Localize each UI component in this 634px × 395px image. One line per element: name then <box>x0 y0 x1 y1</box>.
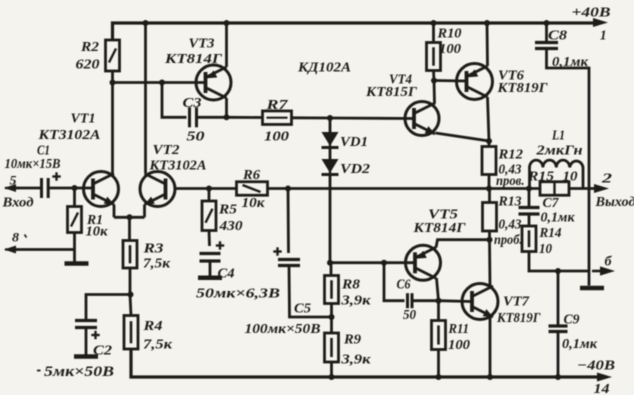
svg-text:VT1: VT1 <box>71 112 96 127</box>
capacitor C5 <box>245 247 321 337</box>
transistor VT6 <box>457 64 549 100</box>
wire VT5 emitter up <box>436 240 490 248</box>
node R9 at rail <box>329 374 335 380</box>
wire bias node to VT5 base <box>330 261 415 264</box>
wire R3 to R4 node <box>130 268 131 316</box>
wire common emitter <box>114 216 145 219</box>
resistor R12 <box>482 147 525 190</box>
resistor R6 <box>237 168 268 211</box>
resistor R15 <box>527 170 578 196</box>
resistor R8 <box>325 276 372 309</box>
resistor R10 <box>427 27 462 71</box>
ground under R1 <box>65 261 89 266</box>
wire VT2 emitter down <box>143 205 146 218</box>
resistor R5 <box>202 201 243 234</box>
svg-text:2мкГн: 2мкГн <box>535 144 582 159</box>
node C5 tap <box>285 186 291 192</box>
svg-text:пров.: пров. <box>496 174 525 189</box>
node R8/R9 junction <box>329 314 335 320</box>
svg-text:R11: R11 <box>448 322 469 337</box>
wire pin 8 to R1 bottom <box>14 248 75 251</box>
capacitor C2 <box>37 321 114 381</box>
wire -40V bottom rail <box>131 349 598 377</box>
wire R13 bottom <box>488 231 491 240</box>
svg-text:14: 14 <box>594 382 610 395</box>
wire R15 to output pin <box>569 187 596 190</box>
svg-text:+40В: +40В <box>572 6 611 21</box>
wire VT1 collector <box>111 83 114 175</box>
node R11 at rail <box>436 374 442 380</box>
pin 5 input arrow <box>1 173 33 211</box>
svg-text:VT2: VT2 <box>153 143 180 158</box>
wire VT2 collector <box>144 23 147 173</box>
-40V arrowhead pin 14 <box>577 359 615 395</box>
svg-text:2: 2 <box>601 172 612 187</box>
svg-text:б: б <box>605 255 613 270</box>
svg-text:R9: R9 <box>343 333 361 348</box>
diode VD2 <box>322 159 371 177</box>
svg-text:0,43: 0,43 <box>499 218 522 233</box>
node VD1 top junction <box>327 115 333 121</box>
svg-text:−40В: −40В <box>577 359 615 374</box>
svg-text:R8: R8 <box>341 278 360 293</box>
node VT6 collector at rail <box>484 20 490 26</box>
svg-text:10: 10 <box>563 170 578 185</box>
svg-text:50: 50 <box>187 130 205 145</box>
wire bias line to VT3 base <box>113 81 207 84</box>
node R10 bottom junction <box>431 78 437 84</box>
svg-text:50: 50 <box>403 308 416 323</box>
svg-text:VD1: VD1 <box>340 135 368 150</box>
wire R9 to rail <box>330 362 333 377</box>
svg-text:L1: L1 <box>551 129 565 144</box>
wire C9 stub <box>557 271 560 325</box>
svg-text:10к: 10к <box>242 196 266 211</box>
wire C3 to VT3 collector <box>197 116 227 119</box>
wire L1 right leg <box>582 167 585 189</box>
node common emitter junction <box>127 214 133 220</box>
wire R12 to output node <box>488 175 491 189</box>
capacitor C7 <box>519 196 576 226</box>
resistor R11 <box>432 321 471 354</box>
node C8 at rail <box>544 20 550 26</box>
resistor R14 <box>522 226 562 257</box>
svg-text:R4: R4 <box>142 319 162 334</box>
transistor VT5 <box>406 208 467 281</box>
wire VD1 to VD2 <box>329 148 332 160</box>
wire VD2 down to bias node <box>329 175 332 263</box>
svg-text:5: 5 <box>10 173 18 188</box>
resistor R13 <box>483 195 523 249</box>
svg-text:R2: R2 <box>80 40 99 55</box>
node VT3 emitter at rail <box>224 20 230 26</box>
wire input to C1 <box>14 187 42 190</box>
node C3 tap junction <box>159 80 165 86</box>
svg-text:5мк×50В: 5мк×50В <box>44 364 114 380</box>
svg-text:Вход: Вход <box>1 196 33 211</box>
resistor R1 <box>68 207 109 240</box>
transistor VT2 <box>140 143 207 207</box>
wire R10 top <box>432 23 435 43</box>
svg-text:R13: R13 <box>498 195 522 210</box>
wire C5 to R8/R9 junction <box>289 266 332 318</box>
node R2/VT1 collector junction <box>110 80 116 86</box>
svg-text:R14: R14 <box>539 226 562 241</box>
inductor L1 <box>530 129 584 168</box>
wire C4 to ground <box>209 261 212 276</box>
wire VT3 collector down <box>225 98 228 117</box>
svg-text:10к: 10к <box>86 225 109 240</box>
ground under C2 <box>74 354 98 359</box>
wire ground stub <box>588 271 591 286</box>
node VT6 emitter/R12 junction <box>486 138 492 144</box>
wire VT4 emitter diagonal <box>436 133 490 147</box>
wire emitters to R3 <box>128 217 131 240</box>
svg-text:VT7: VT7 <box>503 295 530 310</box>
wire R1 to ground <box>73 233 76 262</box>
node VT3 collector junction <box>224 114 230 120</box>
wire R8 to R9 <box>330 304 333 334</box>
svg-text:Выход: Выход <box>594 195 634 210</box>
wire C7 to R14 <box>528 214 531 226</box>
svg-text:КТ815Г: КТ815Г <box>365 85 418 100</box>
wire C6 to VT7 base node <box>412 299 439 302</box>
svg-text:10мк×15В: 10мк×15В <box>5 157 61 172</box>
resistor R9 <box>325 333 372 368</box>
svg-text:100: 100 <box>264 130 289 145</box>
node VT2 collector at rail <box>143 20 149 26</box>
wire VT7 base line <box>439 299 473 303</box>
capacitor C6 <box>397 278 417 324</box>
transistor VT7 <box>462 284 541 327</box>
svg-text:С5: С5 <box>294 302 311 317</box>
node C9 at rail <box>555 374 561 380</box>
svg-text:КТ814Г: КТ814Г <box>412 221 466 236</box>
capacitor C4 <box>196 241 280 301</box>
transistor VT4 <box>365 73 439 136</box>
svg-text:430: 430 <box>218 219 242 234</box>
node VD2/R8 junction <box>327 260 333 266</box>
capacitor C3 <box>183 96 205 145</box>
wire output node to C5 <box>287 189 290 254</box>
pin 8 arrow <box>4 230 27 254</box>
node VT7 base junction <box>436 298 442 304</box>
capacitor C8 <box>535 29 589 71</box>
pin 6 arrow <box>592 255 615 276</box>
wire R13 node to VT7 collector <box>488 240 491 287</box>
node C6 tap <box>381 260 387 266</box>
resistor R3 <box>123 241 171 272</box>
svg-text:R12: R12 <box>497 148 523 163</box>
svg-text:3,9к: 3,9к <box>340 353 371 368</box>
svg-text:КД102А: КД102А <box>297 61 351 76</box>
svg-text:8: 8 <box>12 230 20 245</box>
wire VT6 emitter down to R12 <box>488 97 490 141</box>
svg-text:R10: R10 <box>436 27 461 42</box>
svg-text:R15: R15 <box>527 170 554 185</box>
output arrowhead pin 2 <box>594 172 634 211</box>
capacitor C9 <box>549 313 598 353</box>
svg-text:R3: R3 <box>142 242 163 257</box>
svg-text:50мк×6,3В: 50мк×6,3В <box>196 287 280 302</box>
wire VT3 emitter to rail <box>225 23 228 67</box>
node R3/R4/C2 junction <box>128 292 134 298</box>
node L1/C7 tap <box>526 186 532 192</box>
wire C6 left leg <box>384 263 405 301</box>
wire VT1 base to R1 <box>73 188 76 207</box>
svg-text:КТ3102А: КТ3102А <box>37 128 100 143</box>
node R12/R13 output junction <box>486 186 492 192</box>
svg-text:проб.: проб. <box>494 233 523 248</box>
svg-text:10: 10 <box>539 242 552 257</box>
resistor R2 <box>76 40 120 73</box>
label KD102A <box>297 61 351 76</box>
svg-text:1: 1 <box>600 29 607 44</box>
svg-text:0,1мк: 0,1мк <box>541 211 576 226</box>
svg-text:100: 100 <box>439 42 461 57</box>
wire L1 left leg <box>528 167 531 189</box>
wire R10 bottom <box>432 71 435 81</box>
svg-text:КТ3102А: КТ3102А <box>148 159 206 174</box>
node VT1 base junction <box>72 185 78 191</box>
svg-text:С3: С3 <box>183 96 202 111</box>
wire branch to C2 <box>86 295 131 320</box>
svg-text:VT3: VT3 <box>189 37 215 52</box>
node VT7 emitter at rail <box>487 374 493 380</box>
svg-text:100: 100 <box>448 338 470 353</box>
+40V arrowhead pin 1 <box>572 6 611 44</box>
transistor VT1 <box>37 112 118 207</box>
wire VT2 base to R6 <box>175 187 237 190</box>
wire VT6 collector to rail <box>486 23 489 66</box>
wire R10 node to VT6 base <box>434 79 467 82</box>
svg-text:100мк×50В: 100мк×50В <box>245 322 321 337</box>
diode VD1 <box>322 132 369 150</box>
svg-text:VD2: VD2 <box>340 162 370 177</box>
svg-text:R5: R5 <box>218 203 237 218</box>
node R13/VT5 emitter junction <box>487 237 493 243</box>
wire R2 bottom to bias node <box>111 71 114 83</box>
wire VD node to VT4 base <box>330 117 414 120</box>
wire R6 to output node <box>268 187 541 190</box>
resistor R7 <box>263 98 292 145</box>
wire C7 stub <box>528 189 531 207</box>
wire VT4 collector up <box>433 81 436 104</box>
wire C8 to ground line <box>547 49 590 272</box>
wire R5 top <box>208 189 211 202</box>
svg-text:КТ814Г: КТ814Г <box>164 52 223 67</box>
ground under C4 <box>198 276 222 281</box>
capacitor C1 <box>5 144 61 199</box>
node R5 tap <box>206 186 212 192</box>
wire R11 to rail <box>437 350 440 378</box>
wire VT3 collector to R7 <box>227 116 263 119</box>
wire R14 to pin6 line <box>529 252 589 272</box>
wire C3 left leg <box>162 83 187 118</box>
node C9 tap <box>555 268 561 274</box>
resistor R4 <box>124 316 173 353</box>
svg-text:7,5к: 7,5к <box>143 257 171 272</box>
svg-text:С8: С8 <box>548 29 567 44</box>
svg-text:3,9к: 3,9к <box>340 294 371 309</box>
svg-text:620: 620 <box>76 58 100 73</box>
ground near pin 6 <box>580 286 604 291</box>
svg-text:КТ819Г: КТ819Г <box>496 311 541 326</box>
wire VT5 collector down <box>437 278 439 301</box>
wire R13 top <box>488 189 491 203</box>
wire +40V top rail <box>113 23 596 40</box>
svg-text:С7: С7 <box>543 196 560 211</box>
svg-text:С6: С6 <box>397 278 411 293</box>
wire to VD1 <box>329 118 332 132</box>
transistor VT3 <box>164 37 231 101</box>
wire R8 top <box>330 263 333 276</box>
svg-text:R6: R6 <box>242 168 260 183</box>
wire VT1 emitter down <box>113 205 116 218</box>
wire R5 to C4 <box>208 231 211 247</box>
wire C8 stub <box>545 23 548 41</box>
wire R7 to VD1 node <box>292 116 331 119</box>
svg-text:С9: С9 <box>564 313 580 328</box>
wire C1 to VT1 base <box>48 187 93 190</box>
svg-text:7,5к: 7,5к <box>143 338 173 353</box>
wire C2 to ground <box>85 328 88 356</box>
wire VT7 emitter to rail <box>489 317 492 377</box>
svg-text:0,1мк: 0,1мк <box>562 337 598 352</box>
wire R11 top <box>437 301 440 321</box>
svg-text:R7: R7 <box>265 98 289 113</box>
wire C9 to rail <box>557 332 560 378</box>
node R10 at rail <box>431 20 437 26</box>
svg-text:КТ819Г: КТ819Г <box>496 81 548 96</box>
